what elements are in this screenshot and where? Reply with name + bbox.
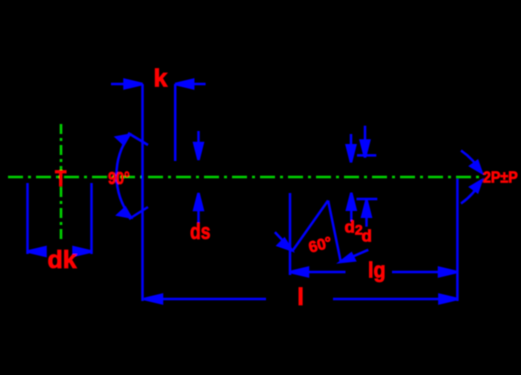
wire dimension k right tail [175, 83, 205, 86]
svg-text:90°: 90° [108, 169, 130, 189]
extension line k-left / l-left [141, 84, 144, 301]
tip chamfer lower arrow [461, 181, 482, 204]
dimension dk left extension [26, 183, 29, 254]
dimension dk right extension [90, 183, 93, 254]
thread flank right line [328, 201, 341, 262]
extension line lg-left [289, 193, 292, 275]
svg-text:T: T [55, 167, 67, 191]
svg-text:ds: ds [190, 220, 211, 244]
centerline horizontal axis [8, 176, 481, 179]
dimension d2 upper arrow [350, 134, 353, 162]
svg-text:l: l [297, 284, 304, 311]
angle 90 lower flank tick [129, 207, 148, 219]
svg-text:d: d [362, 227, 372, 246]
dimension d2 lower arrow [350, 193, 353, 222]
angle 90 upper flank tick [128, 133, 148, 145]
svg-text:k: k [154, 65, 168, 93]
svg-text:2P±P: 2P±P [483, 170, 518, 187]
dimension d lower arrow [365, 200, 368, 227]
wire dimension k left tail [28, 80, 482, 304]
dimension d upper arrow [364, 126, 367, 158]
dimension lg line [290, 271, 346, 274]
tip chamfer upper arrow [461, 151, 482, 173]
angle 60 right arrow [340, 250, 368, 262]
dimension l line [144, 298, 266, 301]
dimension dk line [28, 250, 47, 253]
dimension d upper crossbar [357, 154, 376, 157]
svg-text:lg: lg [368, 259, 386, 283]
dimension ds lower arrow [197, 194, 200, 225]
svg-text:dk: dk [48, 246, 77, 274]
extension line k-right [174, 84, 177, 161]
angle 60 left arrow [275, 232, 292, 250]
dimension d lower crossbar [357, 198, 378, 201]
centerline vertical (front view axis) [60, 124, 63, 240]
angle 90 arc [116, 135, 130, 218]
thread flank left line [293, 201, 329, 251]
extension line screw end (right) [456, 179, 459, 301]
dimension ds upper arrow [197, 131, 200, 160]
